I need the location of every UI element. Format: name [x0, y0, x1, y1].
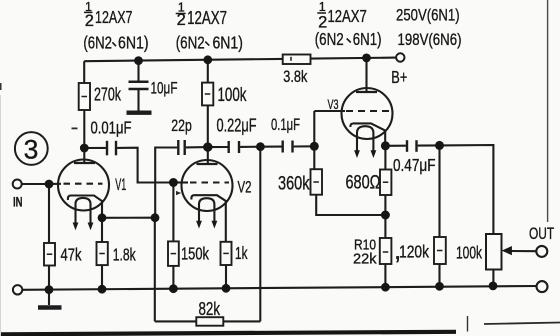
svg-text:120k: 120k [399, 242, 429, 262]
wire: 680 bottom leg [384, 195, 386, 215]
svg-text:12AX7: 12AX7 [95, 7, 133, 27]
wire: 270k top leg from bus corner [83, 61, 85, 83]
wire: node A to 0.1uF [261, 146, 282, 148]
scan artifact: right border line [547, 0, 549, 222]
wire: 82k feedback bottom left [155, 320, 197, 322]
V3 grid wire from node B [314, 110, 345, 112]
capacitor C3 22p right plate [183, 140, 185, 155]
svg-text:0.01μF: 0.01μF [91, 117, 132, 137]
terminal ground right [537, 281, 548, 292]
wire: output node down to 120k [438, 145, 440, 237]
svg-text:1: 1 [319, 0, 326, 14]
resistor R1 270k body [79, 83, 90, 110]
svg-text:10μF: 10μF [151, 78, 178, 97]
junction node: bus at 10uF [134, 56, 143, 65]
heater arrowhead V1 left [73, 223, 79, 231]
svg-text:3.8k: 3.8k [283, 68, 308, 86]
wire: V2 grid node down to 150k [172, 183, 174, 242]
V1 heater filament [76, 198, 91, 211]
capacitor C6 0.47uF right plate [415, 140, 417, 152]
V2 grid dashed line [190, 181, 229, 183]
svg-text:22p: 22p [171, 116, 192, 135]
junction node: 0.47uF out / 120k / pot [435, 141, 444, 150]
V2 heater lead left [198, 210, 200, 222]
V3 cathode [350, 123, 385, 145]
wire: 82k feedback bottom right [223, 320, 260, 322]
resistor R12 82k body [196, 317, 223, 326]
V3 grid dashed line [346, 110, 389, 112]
svg-text:150k: 150k [181, 244, 209, 264]
separator tick second [205, 42, 209, 46]
V3 heater filament [357, 126, 373, 138]
junction node: ground bus at 1.8k [98, 285, 107, 294]
svg-text:360k: 360k [278, 173, 310, 195]
resistor 680 inner tick [383, 181, 389, 183]
svg-text:270k: 270k [94, 83, 121, 104]
minus artifact before 0.01uF [72, 127, 78, 129]
junction node: ground bus at R10 [381, 283, 390, 292]
scan artifact: bottom thick border [0, 332, 456, 335]
wire: R10 bottom leg [384, 264, 386, 287]
capacitor C4 0.22uF right plate [238, 141, 240, 153]
scan artifact: left edge dark tick [0, 83, 2, 90]
junction node: ground bus at 1k [222, 284, 231, 293]
junction node: ground bus at 47k [45, 285, 54, 294]
wire: 0.01uF left wire from V1 plate node [84, 147, 106, 149]
capacitor C1 0.01uF left plate [106, 141, 108, 156]
V1 heater lead right [89, 211, 91, 224]
resistor R7 1k body [221, 242, 232, 265]
heater arrowhead V1 right [88, 223, 94, 231]
V2 cathode [191, 195, 225, 242]
wire: V2 plate node to 0.22uF [208, 146, 228, 148]
svg-text:1.8k: 1.8k [113, 244, 136, 264]
wire: 100k bottom leg to V2 plate node [207, 105, 209, 147]
terminal B+ [396, 53, 404, 61]
wire: ground stub below input ground node [48, 290, 50, 305]
junction node A: 0.22uF / 0.1uF / 82k [256, 142, 265, 151]
junction node: V2 grid [169, 178, 178, 187]
resistor 150k inner tick [171, 253, 177, 255]
wire: 10uF top leg [137, 61, 139, 82]
triode V3 envelope [342, 88, 393, 139]
wire: output node over to potentiometer [440, 145, 494, 234]
wire: 0.01uF to V2 grid jog [117, 148, 173, 183]
wire: grid node down to 47k [48, 184, 50, 243]
wire: top B+ bus right segment [311, 58, 397, 59]
svg-text:(6N2: (6N2 [176, 32, 205, 52]
svg-text:B+: B+ [391, 67, 407, 87]
svg-text:0.1μF: 0.1μF [271, 115, 300, 134]
V3 heater lead left [356, 138, 358, 151]
V2 heater filament [199, 198, 214, 210]
wire: V3 cathode node to 0.47uF [385, 145, 406, 147]
V2 heater lead right [213, 211, 215, 222]
svg-text:0.22μF: 0.22μF [217, 116, 257, 136]
svg-text:2: 2 [85, 12, 94, 30]
svg-text:198V(6N6): 198V(6N6) [398, 30, 462, 49]
svg-text:6N1): 6N1) [353, 29, 382, 49]
V1 heater lead left [74, 210, 76, 224]
capacitor C5 0.1uF right plate [291, 141, 293, 153]
svg-text:0.47μF: 0.47μF [393, 155, 436, 175]
V1 grid wire from input node [49, 183, 61, 185]
resistor R5 1.8k body [97, 242, 108, 265]
junction node: 360k-680 bias node [381, 211, 390, 220]
svg-text:12AX7: 12AX7 [187, 8, 227, 28]
svg-text:V1: V1 [115, 175, 126, 194]
svg-text:IN: IN [13, 194, 23, 209]
V2 grid wire from grid node [173, 181, 188, 183]
V2 plate lead [207, 147, 209, 164]
wire: potentiometer bottom leg [492, 270, 494, 286]
wire: 100k top leg [207, 60, 209, 83]
svg-text:V3: V3 [328, 96, 339, 112]
wire: node B down to 360k [313, 146, 315, 169]
wire: 270k bottom leg to V1 plate node [83, 110, 85, 148]
capacitor C3 22p left plate [177, 140, 179, 155]
wire: 120k bottom leg [438, 264, 440, 286]
wire: V3 plate leg from bus [365, 58, 367, 92]
wire: 1k bottom leg [225, 265, 227, 288]
triode V1 envelope [58, 160, 109, 211]
wire: IN terminal to grid node [22, 183, 49, 185]
scan artifact: bottom right line [484, 323, 560, 325]
wire: V3 cathode node down to 680 ohm [384, 146, 386, 170]
wire: 47k bottom leg [48, 266, 50, 290]
separator tick third [347, 39, 351, 43]
V3 heater lead right [372, 138, 374, 151]
capacitor C1 0.01uF right plate [115, 141, 117, 156]
svg-text:47k: 47k [61, 245, 82, 265]
resistor 120k inner tick [437, 250, 443, 252]
junction node: V1 cathode [98, 213, 107, 222]
junction node: ground bus at 120k [435, 282, 444, 291]
wiper arrowhead [502, 246, 512, 255]
wire: V1 cathode node to 82k tap node [102, 217, 155, 219]
svg-text:100k: 100k [456, 242, 482, 262]
junction node: V2 plate / 22p / 0.22uF [203, 142, 212, 151]
resistor R4 47k body [44, 243, 55, 266]
wire: 22p left leg from cathode tap [155, 148, 177, 218]
scan artifact: faint left edge line [0, 95, 2, 336]
capacitor C5 0.1uF left plate [282, 141, 284, 153]
terminal OUT [536, 246, 547, 257]
wire: 22p right leg to V2 plate node [186, 146, 208, 148]
svg-text:3: 3 [24, 134, 39, 164]
potentiometer RP 100k body [486, 234, 502, 270]
resistor R6 150k body [168, 241, 179, 266]
wire: 0.47uF to output node [418, 144, 440, 146]
resistor 270k inner tick [82, 96, 88, 98]
wire: 0.1uF to node B [294, 145, 315, 147]
junction node: ground bus at pot [489, 282, 498, 291]
V1 plate bar [74, 162, 95, 164]
resistor R10 22k body [380, 238, 392, 264]
ground bar symbol [38, 305, 62, 310]
svg-text:6N1): 6N1) [118, 32, 149, 52]
resistor 1.8k inner tick [99, 253, 105, 255]
capacitor C6 0.47uF left plate [406, 140, 408, 152]
svg-text:2: 2 [177, 11, 186, 29]
resistor R11 120k body [434, 237, 446, 264]
svg-text:680Ω: 680Ω [346, 172, 381, 194]
svg-text:100k: 100k [218, 84, 247, 106]
junction node: cathode / 22p / 82k tap [151, 213, 160, 222]
wire: top B+ bus left segment [84, 59, 283, 61]
wire: node B up to V3 grid [313, 111, 315, 146]
svg-text:22k: 22k [353, 250, 377, 267]
figure number circle 3 [15, 132, 48, 165]
capacitor C2 10uF bottom plate [129, 88, 149, 91]
V1 plate lead [83, 148, 85, 163]
separator tick first [112, 42, 116, 46]
V1 cathode [68, 196, 102, 218]
scan artifact: bottom right vertical tick [467, 316, 469, 332]
svg-text:250V(6N1): 250V(6N1) [396, 5, 460, 24]
svg-text:12AX7: 12AX7 [328, 6, 367, 26]
resistor 47k inner tick [47, 253, 53, 255]
wire: bias node down to R10 [384, 215, 386, 238]
svg-text:82k: 82k [199, 299, 221, 319]
wire: 1.8k bottom leg [101, 265, 103, 289]
V1 grid dashed line [64, 183, 103, 185]
svg-text:6N1): 6N1) [213, 32, 243, 52]
ground bar under 10uF [127, 110, 152, 114]
junction node: V3 cathode / 680 / 0.47uF [381, 141, 390, 150]
junction node: bus at V3 plate [362, 54, 371, 63]
resistor R10 inner tick [383, 251, 389, 253]
terminal ground left [13, 285, 22, 294]
junction node B: 0.1uF / V3 grid / 360k [310, 142, 319, 151]
svg-text:(6N2: (6N2 [315, 29, 344, 49]
resistor R2 100k body [202, 83, 213, 106]
resistor R8 360k body [311, 169, 323, 195]
resistor R3 3.8k body (in series with bus) [283, 55, 311, 65]
junction node: ground bus at 150k [169, 284, 178, 293]
svg-text:V2: V2 [238, 178, 252, 196]
wire: 360k bottom to cathode bias node [316, 195, 385, 215]
fraction bar V1 [84, 11, 93, 13]
resistor R9 680 ohm body [380, 170, 391, 196]
resistor 100k inner tick [205, 93, 211, 95]
junction node: V1 plate / 0.01uF [80, 144, 89, 153]
junction node: input grid node [45, 180, 54, 189]
wire: 150k bottom leg [172, 266, 174, 289]
fraction bar V3 [317, 12, 326, 14]
capacitor C4 0.22uF left plate [227, 141, 229, 153]
capacitor C2 10uF top plate [129, 81, 149, 84]
V2 plate bar [197, 163, 218, 165]
resistor 360k inner tick [313, 181, 319, 183]
heater arrowhead V2 right [212, 221, 218, 229]
wire: ground bus [22, 286, 537, 290]
heater arrowhead V2 left [196, 221, 202, 229]
junction node: bus at 100k [203, 55, 212, 64]
triode V2 envelope [182, 160, 233, 211]
fraction bar V2 [176, 13, 186, 15]
wire: wiper to OUT terminal [511, 250, 537, 252]
heater arrowhead V3 left [354, 150, 360, 158]
svg-text:1k: 1k [235, 243, 248, 263]
terminal IN [13, 180, 22, 189]
small pointer artifact left of V2 [176, 191, 181, 195]
wire: V1 cathode node down to 1.8k [101, 218, 103, 242]
heater arrowhead V3 right [371, 150, 377, 158]
svg-text:(6N2: (6N2 [83, 32, 112, 52]
svg-text:OUT: OUT [529, 224, 554, 243]
V3 plate bar [356, 91, 377, 93]
wire: 0.22uF to node A [240, 146, 260, 148]
resistor 3.8k inner tick [290, 57, 292, 61]
wire: 82k feedback left leg [154, 218, 156, 322]
wire: 10uF bottom leg to ground bar [137, 89, 139, 111]
wire: 82k feedback right leg up to node A [259, 147, 261, 322]
resistor 1k inner tick [223, 252, 229, 254]
